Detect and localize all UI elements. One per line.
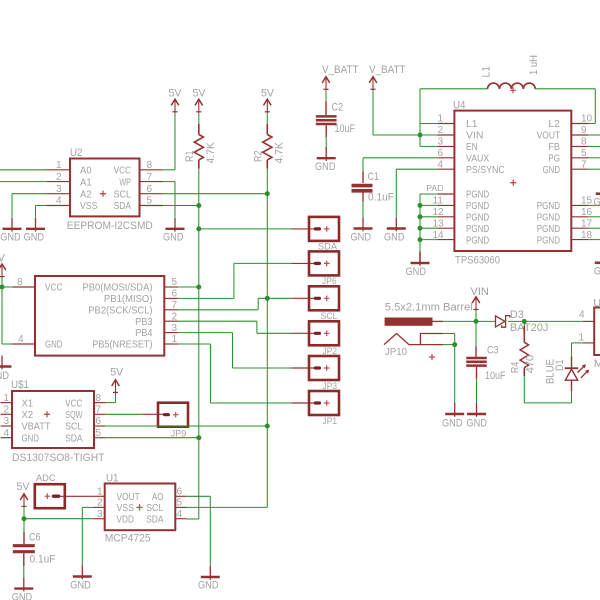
svg-text:JP1: JP1	[323, 416, 338, 426]
svg-text:1: 1	[56, 160, 62, 171]
svg-text:4: 4	[56, 196, 62, 207]
svg-text:SDA: SDA	[114, 200, 131, 212]
svg-text:5: 5	[147, 196, 153, 207]
svg-text:C2: C2	[332, 102, 344, 114]
svg-text:PGND: PGND	[466, 189, 490, 201]
svg-text:PGND: PGND	[537, 212, 561, 224]
svg-text:4: 4	[579, 310, 585, 321]
svg-text:C1: C1	[368, 171, 380, 183]
svg-text:GND: GND	[0, 370, 9, 382]
svg-text:SQW: SQW	[65, 409, 82, 421]
svg-text:3: 3	[97, 509, 103, 520]
svg-text:GND: GND	[12, 592, 33, 600]
svg-text:1: 1	[4, 393, 10, 404]
svg-text:C6: C6	[29, 532, 41, 544]
svg-text:L2: L2	[548, 118, 560, 130]
svg-text:VCC: VCC	[65, 397, 83, 409]
svg-text:PGND: PGND	[466, 234, 490, 246]
svg-text:6: 6	[96, 416, 102, 427]
svg-text:5: 5	[172, 277, 178, 288]
svg-text:D1: D1	[554, 360, 566, 372]
svg-text:L1: L1	[466, 118, 478, 130]
svg-text:6: 6	[147, 184, 153, 195]
svg-text:3: 3	[56, 184, 62, 195]
svg-text:3: 3	[4, 416, 10, 427]
svg-text:GND: GND	[442, 417, 463, 429]
svg-text:0.1uF: 0.1uF	[30, 554, 56, 566]
svg-text:PB5(NRESET): PB5(NRESET)	[92, 339, 152, 351]
svg-text:BAT20J: BAT20J	[510, 322, 549, 334]
svg-text:VIN: VIN	[471, 286, 489, 298]
svg-text:R1: R1	[184, 151, 196, 163]
svg-text:5V: 5V	[261, 88, 275, 100]
svg-text:5V: 5V	[193, 88, 207, 100]
svg-text:EEPROM-I2CSMD: EEPROM-I2CSMD	[67, 220, 153, 232]
svg-text:U1: U1	[106, 473, 119, 485]
svg-text:GND: GND	[594, 197, 600, 209]
svg-text:GND: GND	[315, 161, 336, 173]
svg-text:4.7K: 4.7K	[205, 142, 217, 164]
svg-text:VCC: VCC	[45, 282, 63, 294]
svg-text:5V: 5V	[110, 366, 124, 378]
svg-text:VAUX: VAUX	[466, 153, 489, 165]
svg-text:PB2(SCK/SCL): PB2(SCK/SCL)	[88, 304, 152, 316]
svg-text:3: 3	[172, 323, 178, 334]
svg-text:PGND: PGND	[466, 212, 490, 224]
svg-text:7: 7	[147, 172, 153, 183]
svg-text:1 uH: 1 uH	[528, 55, 540, 75]
svg-text:U$1: U$1	[11, 379, 29, 391]
svg-text:SDA: SDA	[65, 432, 82, 444]
svg-text:5: 5	[581, 148, 587, 159]
svg-text:10uF: 10uF	[335, 123, 356, 135]
svg-text:C3: C3	[487, 345, 499, 357]
svg-text:JP10: JP10	[385, 347, 407, 358]
svg-text:PGND: PGND	[537, 223, 561, 235]
svg-text:GND: GND	[0, 231, 21, 243]
svg-text:VIN: VIN	[466, 130, 483, 142]
svg-text:2: 2	[97, 498, 103, 509]
svg-text:6: 6	[437, 148, 443, 159]
svg-text:7: 7	[581, 159, 587, 170]
svg-text:2: 2	[172, 311, 178, 322]
svg-text:GND: GND	[466, 417, 487, 429]
svg-text:V_BATT: V_BATT	[322, 64, 359, 76]
svg-text:8: 8	[17, 277, 23, 288]
svg-text:GND: GND	[198, 580, 219, 592]
svg-text:VSS: VSS	[80, 200, 97, 212]
svg-text:SCL: SCL	[65, 421, 83, 433]
svg-text:GND: GND	[406, 266, 427, 278]
svg-text:1: 1	[97, 487, 103, 498]
svg-text:U5: U5	[593, 298, 600, 310]
svg-text:9: 9	[581, 125, 587, 136]
svg-text:PGND: PGND	[537, 234, 561, 246]
svg-text:VSS: VSS	[117, 502, 134, 514]
svg-text:PAD: PAD	[426, 183, 443, 193]
svg-text:R2: R2	[252, 151, 264, 163]
svg-text:A2: A2	[80, 188, 92, 200]
svg-text:7: 7	[96, 405, 102, 416]
svg-text:SCL: SCL	[146, 502, 164, 514]
svg-text:0.1uF: 0.1uF	[368, 191, 394, 203]
svg-text:WP: WP	[119, 176, 131, 188]
svg-text:1: 1	[437, 114, 443, 125]
svg-text:4: 4	[177, 509, 183, 520]
svg-text:PB1(MISO): PB1(MISO)	[104, 293, 153, 305]
svg-text:1: 1	[172, 334, 178, 345]
svg-text:5: 5	[177, 498, 183, 509]
svg-text:1: 1	[578, 332, 584, 343]
svg-text:R4: R4	[510, 362, 522, 374]
svg-text:MCP4725: MCP4725	[105, 532, 151, 544]
svg-text:D3: D3	[510, 309, 524, 321]
svg-text:JP9: JP9	[171, 429, 187, 439]
svg-text:PS/SYNC: PS/SYNC	[466, 164, 505, 176]
svg-text:2: 2	[437, 125, 443, 136]
svg-text:SDA: SDA	[146, 513, 163, 525]
svg-text:PB0(MOSI/SDA): PB0(MOSI/SDA)	[83, 282, 153, 294]
svg-text:GND: GND	[543, 164, 561, 176]
svg-text:4.7K: 4.7K	[274, 142, 286, 164]
svg-text:GND: GND	[384, 231, 405, 243]
svg-text:5V: 5V	[169, 88, 183, 100]
svg-text:2: 2	[4, 405, 10, 416]
svg-text:6: 6	[177, 487, 183, 498]
svg-text:X1: X1	[22, 397, 34, 409]
svg-text:5: 5	[96, 428, 102, 439]
svg-text:10uF: 10uF	[485, 370, 506, 382]
svg-text:GND: GND	[163, 231, 184, 243]
svg-text:PGND: PGND	[537, 200, 561, 212]
svg-text:PGND: PGND	[466, 200, 490, 212]
svg-text:PGND: PGND	[466, 223, 490, 235]
svg-text:5V: 5V	[0, 253, 6, 265]
svg-text:VBATT: VBATT	[22, 421, 52, 433]
svg-text:VCC: VCC	[114, 165, 132, 177]
svg-text:5V: 5V	[17, 481, 31, 493]
svg-text:A0: A0	[80, 165, 92, 177]
svg-text:3: 3	[437, 137, 443, 148]
svg-text:GND: GND	[24, 231, 45, 243]
svg-text:TPS63060: TPS63060	[455, 254, 500, 266]
svg-text:A1: A1	[80, 176, 92, 188]
svg-text:6: 6	[172, 289, 178, 300]
svg-text:DS1307SO8-TIGHT: DS1307SO8-TIGHT	[12, 452, 105, 464]
svg-text:2: 2	[56, 172, 62, 183]
svg-text:JP3: JP3	[323, 381, 338, 391]
svg-text:8: 8	[96, 393, 102, 404]
svg-text:8: 8	[581, 137, 587, 148]
svg-text:U4: U4	[453, 100, 466, 112]
svg-text:JP6: JP6	[322, 276, 337, 286]
svg-text:JP2: JP2	[323, 346, 338, 356]
svg-text:ADC: ADC	[36, 473, 56, 483]
svg-text:GND: GND	[594, 266, 600, 278]
svg-text:SCL: SCL	[321, 311, 338, 321]
svg-text:7: 7	[172, 300, 178, 311]
svg-text:VOUT: VOUT	[537, 130, 561, 142]
svg-text:SCL: SCL	[114, 188, 132, 200]
svg-text:GND: GND	[351, 231, 372, 243]
svg-text:L1: L1	[480, 66, 492, 78]
svg-text:U2: U2	[70, 147, 83, 159]
svg-text:4: 4	[4, 428, 10, 439]
svg-text:5.5x2.1mm Barrel: 5.5x2.1mm Barrel	[385, 301, 473, 313]
svg-text:PB3: PB3	[135, 316, 153, 328]
svg-text:GND: GND	[22, 432, 40, 444]
svg-text:PB4: PB4	[135, 327, 153, 339]
svg-text:GND: GND	[70, 579, 91, 591]
svg-text:MIC5205: MIC5205	[594, 358, 600, 370]
svg-text:4: 4	[437, 159, 443, 170]
svg-text:VDD: VDD	[117, 513, 135, 525]
svg-text:470: 470	[525, 355, 537, 374]
svg-text:8: 8	[147, 160, 153, 171]
svg-text:EN: EN	[466, 141, 478, 153]
svg-text:FB: FB	[548, 141, 560, 153]
svg-text:4: 4	[18, 334, 24, 345]
svg-text:GND: GND	[45, 339, 63, 351]
svg-text:PG: PG	[548, 153, 560, 165]
svg-text:V_BATT: V_BATT	[369, 64, 406, 76]
svg-text:X2: X2	[22, 409, 34, 421]
